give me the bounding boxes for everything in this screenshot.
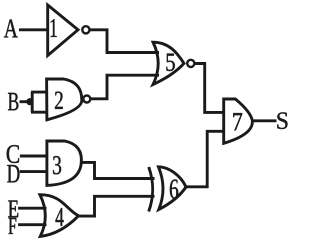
- wire B fork top branch: [31, 91, 48, 94]
- NAND gate 2 body: [47, 79, 82, 120]
- node E label: [8, 201, 18, 218]
- node S label: [277, 112, 287, 129]
- wire D to gate 3: [20, 170, 48, 173]
- wire gate3 output to gate 6 top input: [81, 162, 155, 178]
- wire gate6 output to gate 7 bottom input: [186, 131, 225, 187]
- AND gate 7 body: [224, 99, 253, 143]
- wire gate5 output to gate 7 top input: [195, 64, 225, 113]
- gate 1 output bubble: [82, 26, 89, 33]
- wire gate4 output to gate 6 bottom input: [78, 196, 155, 216]
- gate 6 label "6": [170, 180, 178, 199]
- XOR gate 6 leading arc: [149, 167, 153, 212]
- gate 7 label "7": [233, 113, 242, 130]
- gate 2 label "2": [55, 92, 63, 109]
- XOR gate 6 body: [158, 167, 186, 210]
- node F label: [9, 218, 17, 234]
- NOR gate 5 body: [153, 42, 184, 84]
- gate 3 label "3": [53, 156, 61, 174]
- wire B fork bottom branch: [31, 111, 48, 114]
- node C label: [7, 145, 19, 163]
- wire A to gate 1: [19, 28, 48, 31]
- node B label: [8, 93, 18, 110]
- gate 2 output bubble: [83, 96, 90, 103]
- wire F to gate 4: [18, 223, 46, 226]
- gate 1 label "1": [51, 19, 57, 37]
- inverter gate 1 (NOT) triangle: [48, 5, 78, 56]
- junction dot on B: [26, 98, 33, 105]
- wire gate7 output to S: [253, 119, 277, 122]
- wire B fork vertical: [31, 92, 34, 112]
- gate 4 label "4": [56, 208, 64, 226]
- wire E to gate 4: [18, 207, 46, 210]
- AND gate 3 body: [47, 141, 82, 185]
- wire C to gate 3: [20, 155, 48, 158]
- wire gate2 output to gate 5 bottom input: [91, 75, 159, 99]
- wire gate1 output to gate 5 top input: [90, 30, 159, 53]
- node A label: [4, 20, 18, 38]
- wire B to junction: [20, 100, 33, 103]
- gate 5 label "5": [166, 54, 174, 71]
- OR gate 4 body: [40, 195, 79, 237]
- gate 5 output bubble: [187, 60, 194, 67]
- node D label: [7, 165, 19, 182]
